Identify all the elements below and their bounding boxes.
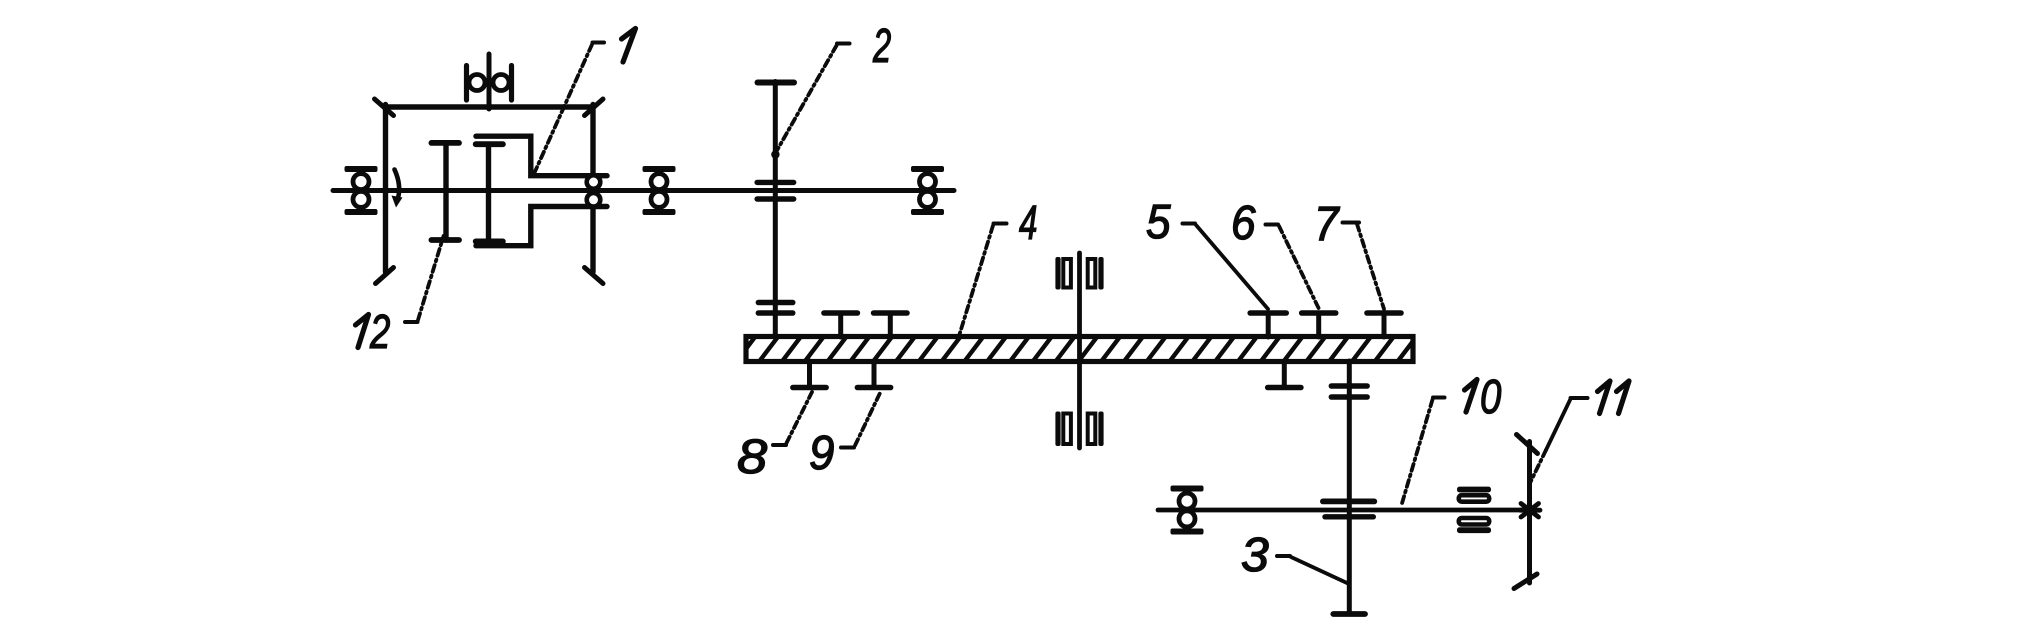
bearing above frame on vertical pin xyxy=(467,54,512,109)
gear caps above rack (lower end of shaft 2) xyxy=(758,303,792,314)
belt-drive housing frame xyxy=(375,99,604,284)
friction coupling plates 10 xyxy=(1457,487,1491,533)
screw nut above rack xyxy=(1055,257,1103,290)
roller 6 on rack top xyxy=(1302,313,1336,337)
vertical shaft 3 xyxy=(1333,361,1365,614)
leader line to label 7 xyxy=(1343,223,1385,310)
leader line to label 6 xyxy=(1266,225,1320,310)
clutch drum bracket 1 xyxy=(476,136,607,246)
bearing on shaft I, left end xyxy=(345,166,378,215)
leader line to label 2 with node dot xyxy=(771,44,849,159)
leader line to label 8 xyxy=(773,392,812,445)
pulley disc of clutch pair xyxy=(476,144,503,241)
roller 7 on rack top xyxy=(1367,313,1401,337)
leader line to label 10 xyxy=(1402,398,1445,506)
rack table 4 (hatched bar) xyxy=(736,337,1416,363)
svg-text:5: 5 xyxy=(1146,194,1171,248)
bearing in frame right wall xyxy=(587,175,601,206)
svg-text:0: 0 xyxy=(1480,371,1501,424)
svg-text:7: 7 xyxy=(1314,196,1341,250)
bevel mesh caps at output shaft xyxy=(1323,501,1374,516)
leader line to label 5 xyxy=(1183,224,1269,310)
pulley disc 12 xyxy=(431,143,459,240)
roller under rack, left pair b xyxy=(857,361,890,388)
roller on rack top, left pair b xyxy=(874,313,907,337)
svg-text:6: 6 xyxy=(1231,195,1256,249)
shaft I (input horizontal shaft) xyxy=(333,188,954,193)
bearing on shaft I, right end xyxy=(911,166,944,215)
label 1 xyxy=(622,29,636,63)
label 11 xyxy=(1598,381,1630,414)
handwheel 11 xyxy=(1514,435,1540,589)
roller on rack top, left pair a xyxy=(824,313,857,337)
roller under rack, right xyxy=(1268,361,1301,388)
leader line to label 4 xyxy=(959,224,1007,337)
pinion pair under rack on shaft 3 xyxy=(1331,386,1367,397)
bearing on output shaft xyxy=(1171,486,1204,535)
svg-text:9: 9 xyxy=(809,426,834,479)
output shaft (bottom horizontal) xyxy=(1158,508,1531,513)
svg-text:2: 2 xyxy=(872,19,891,73)
leader line to label 9 xyxy=(841,393,880,448)
bearing on shaft I, middle xyxy=(643,166,676,215)
roller under rack, left pair a xyxy=(793,361,826,388)
leader line to label 11 xyxy=(1530,398,1588,483)
svg-text:3: 3 xyxy=(1241,529,1269,582)
leader line to label 3 xyxy=(1277,556,1347,583)
vertical gear shaft of gear 2 xyxy=(758,82,795,337)
roller 5 on rack top xyxy=(1250,313,1286,337)
svg-text:4: 4 xyxy=(1019,196,1037,250)
rotation direction arrow on shaft I xyxy=(392,170,403,208)
label 12 xyxy=(356,305,391,359)
gear 2 mesh caps on shaft I xyxy=(757,182,794,199)
leader line to label 12 xyxy=(405,236,444,322)
screw nut below rack xyxy=(1055,412,1103,447)
label 10 xyxy=(1465,371,1502,424)
svg-text:8: 8 xyxy=(737,430,768,483)
leader line to label 1 xyxy=(533,43,604,177)
lead screw vertical shaft through rack xyxy=(1077,253,1082,448)
svg-text:2: 2 xyxy=(369,305,390,359)
